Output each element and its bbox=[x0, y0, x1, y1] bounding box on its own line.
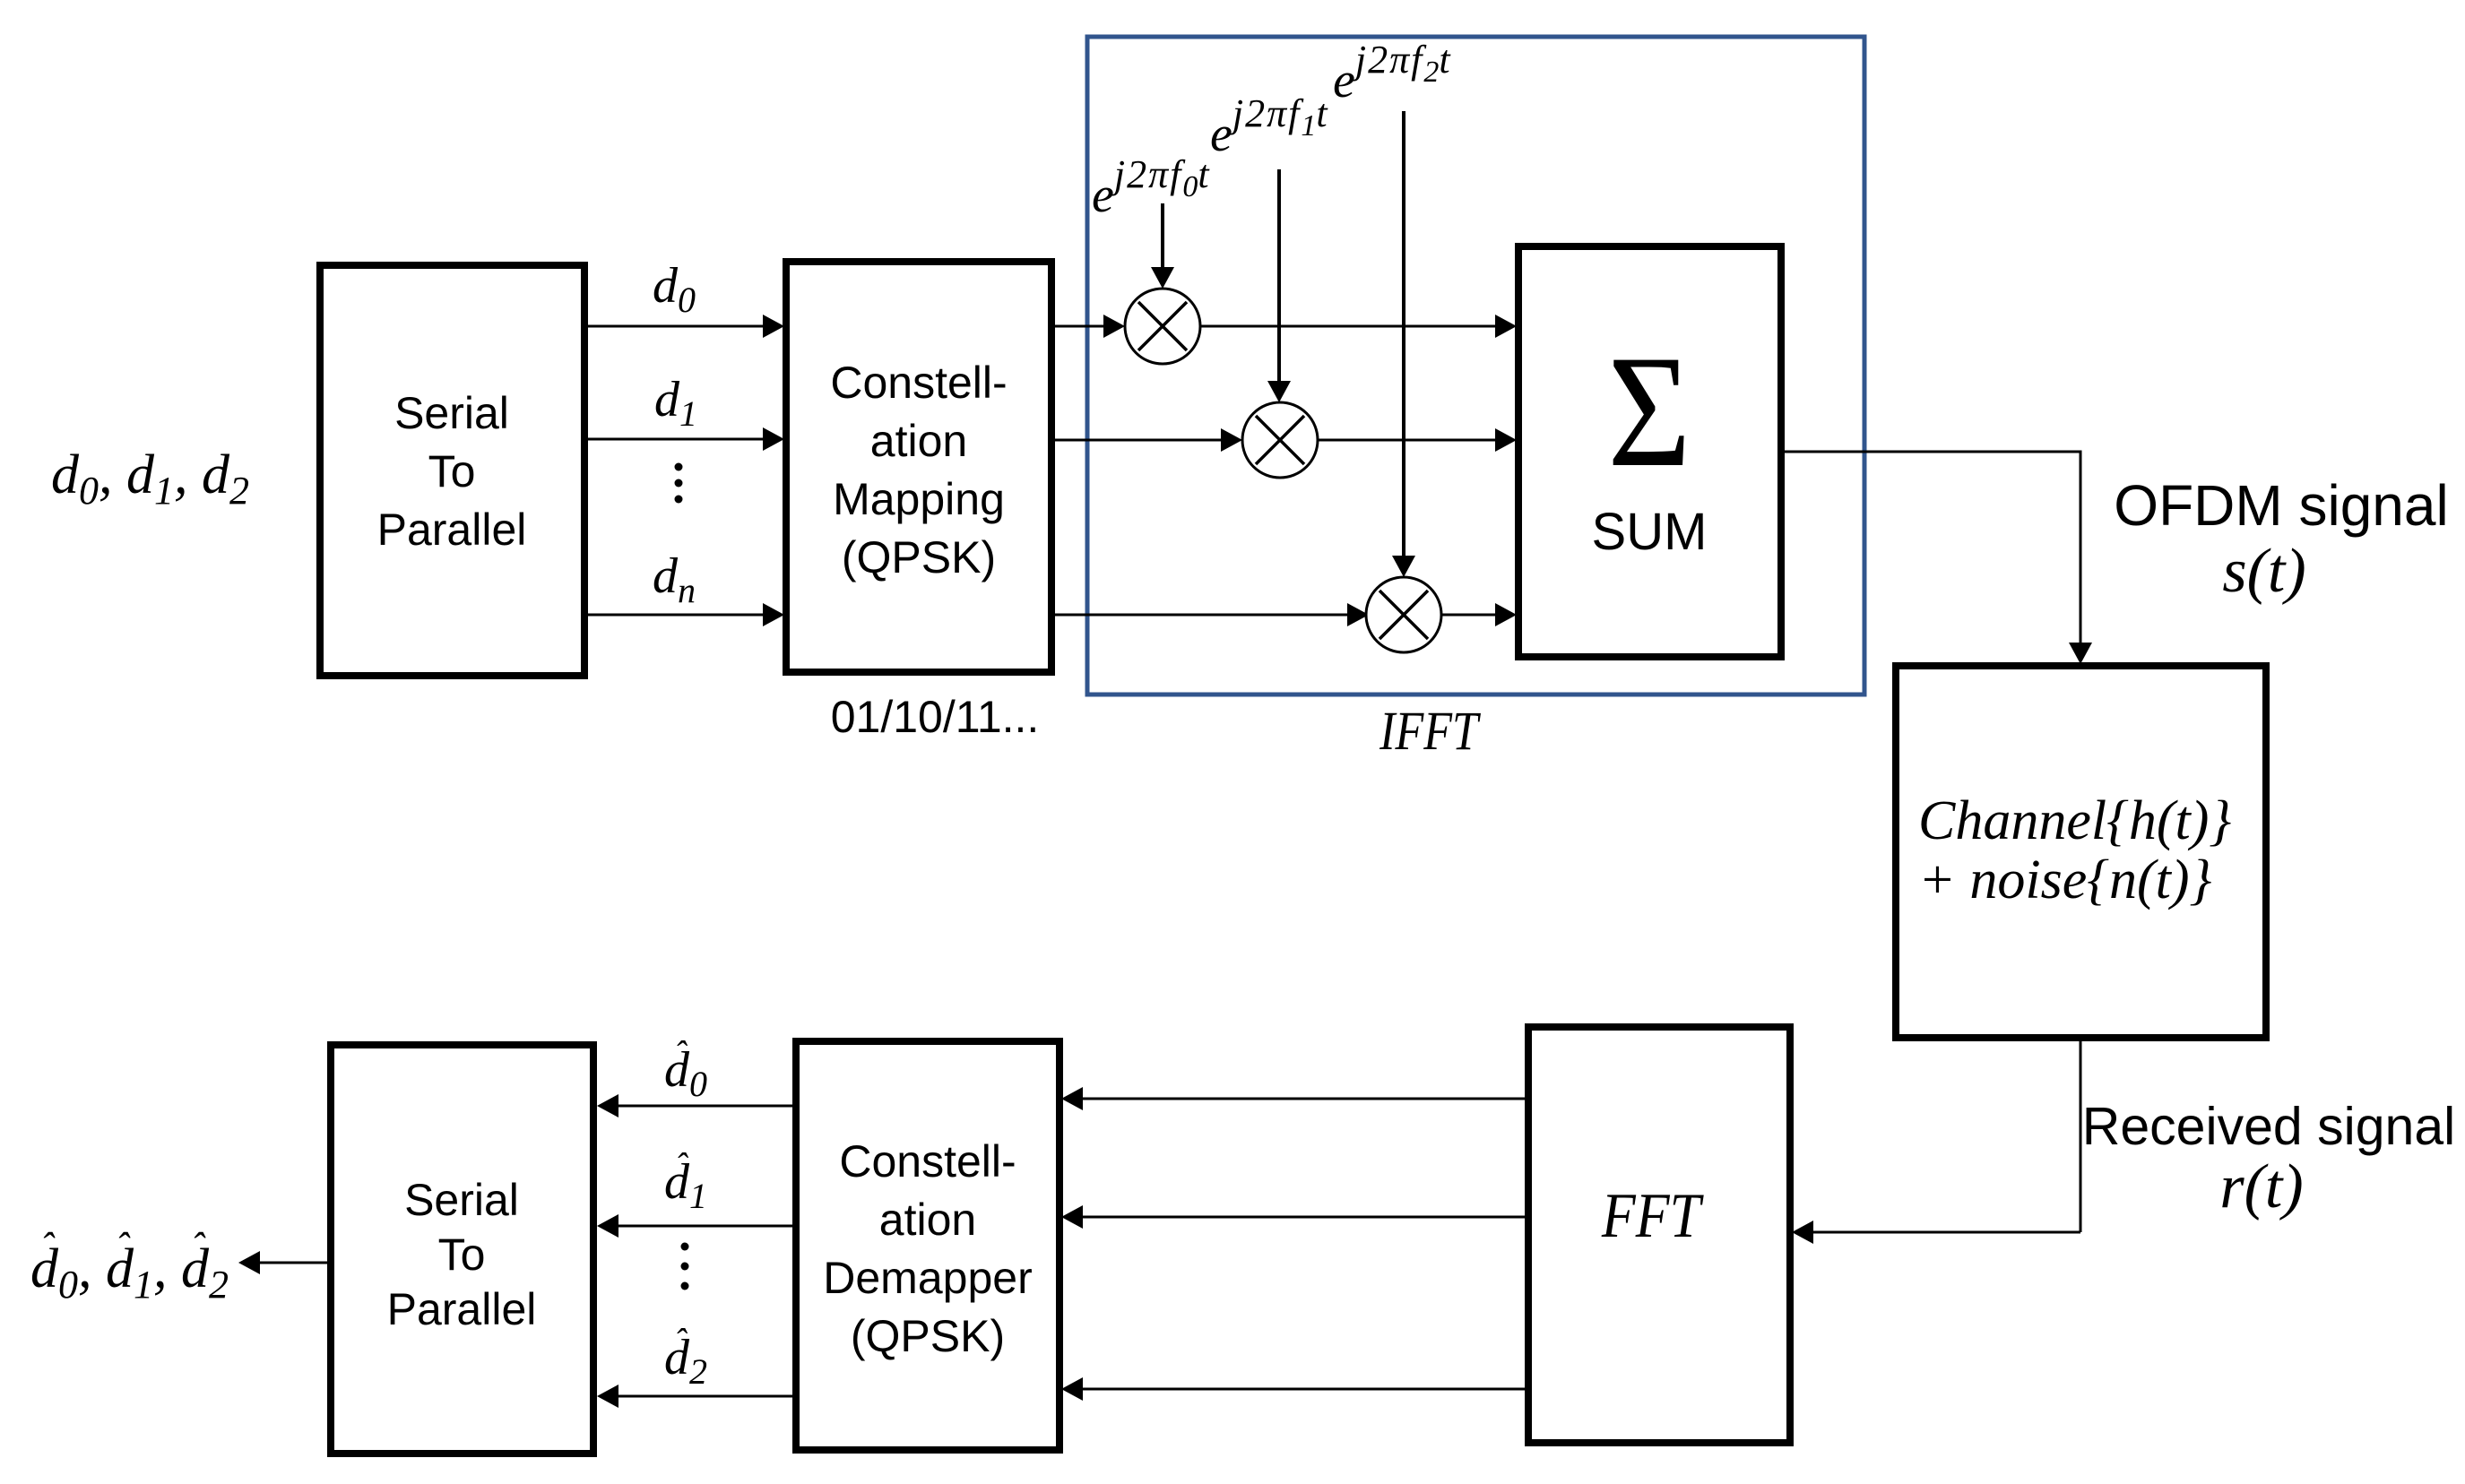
label OFDM signal s(t) bbox=[2114, 473, 2448, 606]
svg-text:OFDM signal: OFDM signal bbox=[2114, 473, 2448, 538]
wire multiplier M1 to SUM bbox=[1200, 315, 1517, 338]
IFFT boundary box bbox=[1087, 37, 1864, 695]
label e^j2pi f1 t bbox=[1210, 91, 1328, 162]
wire mapper output n to multiplier M3 bbox=[1051, 603, 1369, 626]
wire multiplier M2 to SUM bbox=[1318, 428, 1517, 452]
svg-text:Constell-: Constell- bbox=[839, 1136, 1016, 1186]
svg-text:ation: ation bbox=[870, 416, 967, 466]
multiplier M1 bbox=[1125, 289, 1200, 364]
svg-text:SUM: SUM bbox=[1592, 503, 1708, 561]
label d0 bbox=[653, 258, 696, 320]
block Serial To Parallel (receiver) bbox=[331, 1045, 593, 1454]
ellipsis dots (receive side) bbox=[681, 1243, 689, 1290]
svg-text:ˆ: ˆ bbox=[191, 1225, 206, 1269]
svg-text:Parallel: Parallel bbox=[377, 505, 527, 555]
svg-text:ˆ: ˆ bbox=[674, 1033, 688, 1074]
svg-text:r(t): r(t) bbox=[2219, 1152, 2303, 1221]
svg-text:ation: ation bbox=[879, 1195, 976, 1245]
wire mapper output 1 to multiplier M2 bbox=[1051, 428, 1242, 452]
label d0 hat bbox=[664, 1033, 707, 1104]
label dn bbox=[653, 548, 696, 610]
wire dn (STP to mapper) bbox=[584, 603, 784, 626]
wire SUM output to channel (OFDM signal) bbox=[1781, 451, 2092, 665]
wire demapper output d1hat to STP bbox=[597, 1214, 796, 1238]
svg-text:ˆ: ˆ bbox=[675, 1145, 688, 1186]
svg-text:01/10/11...: 01/10/11... bbox=[831, 692, 1040, 742]
svg-text:Demapper: Demapper bbox=[823, 1253, 1032, 1303]
label d2 hat bbox=[664, 1321, 707, 1392]
svg-text:To: To bbox=[438, 1229, 486, 1280]
wire mapper output 0 to multiplier M1 bbox=[1051, 315, 1125, 338]
label d1 hat bbox=[664, 1145, 707, 1216]
svg-text:Serial: Serial bbox=[394, 388, 509, 438]
wire d0 (STP to mapper) bbox=[584, 315, 784, 338]
block Constellation Demapper (QPSK) bbox=[796, 1041, 1060, 1450]
svg-text:(QPSK): (QPSK) bbox=[842, 532, 996, 582]
svg-text:Serial: Serial bbox=[404, 1175, 519, 1225]
label d1 bbox=[654, 372, 697, 434]
label e^j2pi f0 t bbox=[1092, 152, 1210, 223]
svg-text:Channel{h(t)}: Channel{h(t)} bbox=[1918, 790, 2231, 851]
label input d0,d1,d2 bbox=[51, 444, 249, 513]
block FFT bbox=[1528, 1027, 1790, 1443]
svg-text:Parallel: Parallel bbox=[387, 1284, 537, 1334]
svg-text:Constell-: Constell- bbox=[830, 358, 1007, 408]
wire FFT output 0 to demapper bbox=[1061, 1087, 1528, 1110]
wire STP output (serial estimate) bbox=[238, 1251, 331, 1274]
wire d1 (STP to mapper) bbox=[584, 427, 784, 451]
wire carrier f2 into multiplier M3 bbox=[1392, 111, 1415, 577]
label Received signal r(t) bbox=[2082, 1097, 2456, 1221]
svg-text:s(t): s(t) bbox=[2222, 537, 2305, 606]
wire carrier f0 into multiplier M1 bbox=[1151, 203, 1174, 289]
block Constellation Mapping (QPSK) bbox=[786, 262, 1051, 672]
svg-text:IFFT: IFFT bbox=[1379, 701, 1481, 762]
block Channel + noise bbox=[1896, 666, 2266, 1038]
svg-text:ˆ: ˆ bbox=[116, 1225, 131, 1269]
svg-text:To: To bbox=[428, 446, 476, 496]
multiplier M3 bbox=[1366, 577, 1441, 652]
wire multiplier M3 to SUM bbox=[1441, 603, 1517, 626]
multiplier M2 bbox=[1242, 402, 1318, 478]
svg-text:ˆ: ˆ bbox=[40, 1225, 56, 1269]
block SUM bbox=[1518, 246, 1781, 657]
label IFFT bbox=[1379, 701, 1481, 762]
svg-text:Mapping: Mapping bbox=[833, 474, 1005, 524]
svg-text:+ noise{n(t)}: + noise{n(t)} bbox=[1918, 850, 2212, 910]
block Serial To Parallel (transmitter) bbox=[320, 265, 584, 676]
label e^j2pi f2 t bbox=[1333, 38, 1451, 108]
svg-text:(QPSK): (QPSK) bbox=[851, 1311, 1005, 1361]
svg-text:FFT: FFT bbox=[1601, 1180, 1705, 1251]
wire demapper output d2hat to STP bbox=[597, 1385, 796, 1408]
svg-text:Received signal: Received signal bbox=[2082, 1097, 2456, 1156]
label output d0hat,d1hat,d2hat bbox=[30, 1225, 229, 1307]
ellipsis dots (transmit side) bbox=[675, 463, 683, 504]
wire FFT output 2 to demapper bbox=[1061, 1377, 1528, 1401]
wire demapper output d0hat to STP bbox=[597, 1094, 796, 1117]
svg-text:Σ: Σ bbox=[1607, 323, 1691, 500]
wire carrier f1 into multiplier M2 bbox=[1267, 169, 1291, 402]
label 01/10/11... bbox=[831, 692, 1040, 742]
svg-text:ˆ: ˆ bbox=[674, 1321, 688, 1361]
wire FFT output 1 to demapper bbox=[1061, 1205, 1528, 1229]
wire channel output to FFT (received signal) bbox=[1792, 1038, 2080, 1244]
